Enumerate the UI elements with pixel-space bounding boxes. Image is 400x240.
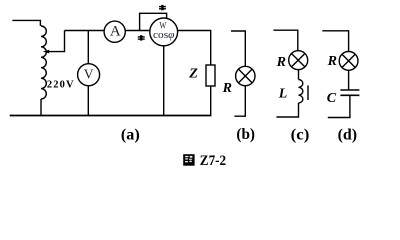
- wire: (b) top lead: [231, 31, 245, 66]
- svg-text:L: L: [278, 86, 288, 101]
- wire: voltmeter branch bottom: [87, 86, 89, 116]
- wire: (d) bottom lead: [328, 95, 350, 117]
- wire: (b) bottom lead: [234, 86, 245, 117]
- caption 图 Z7-2 : hand-drawn 图 glyph: [183, 154, 194, 166]
- lamp R (c): [289, 51, 308, 70]
- polarity mark * (current coil): [138, 35, 145, 40]
- wire: main bus (tap to ammeter): [65, 30, 105, 32]
- wire: (c) bottom lead: [276, 103, 298, 117]
- wire: (d) top lead: [322, 31, 348, 52]
- svg-text:(c): (c): [291, 126, 310, 143]
- inductor core bar: [307, 85, 309, 100]
- wire: lamp to inductor (c): [298, 70, 300, 80]
- svg-text:(d): (d): [338, 126, 358, 143]
- svg-text:R: R: [327, 54, 337, 69]
- wire: source top lead: [12, 20, 40, 26]
- wire: wattmeter to Z branch: [178, 31, 211, 66]
- lamp R (d): [339, 52, 358, 71]
- svg-text:R: R: [276, 55, 286, 70]
- impedance Z box: [206, 65, 215, 86]
- wire: wattmeter bottom lead: [163, 46, 165, 116]
- svg-text:C: C: [327, 91, 337, 106]
- svg-text:cosφ: cosφ: [153, 29, 174, 41]
- voltmeter V1: [78, 64, 100, 86]
- wire: bottom rail: [10, 115, 212, 117]
- wattmeter voltage branch wire: [140, 13, 167, 30]
- wire: winding bottom lead: [40, 99, 42, 116]
- wattmeter U1 (W cosφ): [150, 18, 178, 46]
- svg-text:(b): (b): [236, 126, 255, 143]
- svg-text:Z7-2: Z7-2: [200, 153, 226, 169]
- wire: Z bottom lead: [210, 86, 212, 116]
- autotransformer tap arrow: [49, 31, 65, 52]
- polarity mark * (voltage coil): [159, 5, 166, 10]
- svg-text:V: V: [84, 66, 94, 81]
- wire: ammeter to wattmeter: [125, 30, 150, 32]
- svg-text:A: A: [110, 24, 121, 40]
- wire: voltmeter branch top: [87, 31, 89, 64]
- autotransformer T1 winding: [41, 26, 46, 99]
- svg-text:R: R: [222, 81, 232, 96]
- capacitor C: [340, 89, 359, 91]
- svg-text:Z: Z: [188, 66, 198, 81]
- svg-text:220V: 220V: [47, 79, 75, 90]
- inductor L: [299, 80, 303, 103]
- wire: lamp to capacitor (d): [348, 70, 350, 90]
- svg-text:(a): (a): [121, 126, 140, 143]
- wire: (c) top lead: [273, 30, 297, 51]
- ammeter A1: [104, 21, 125, 42]
- lamp R (b): [236, 66, 255, 85]
